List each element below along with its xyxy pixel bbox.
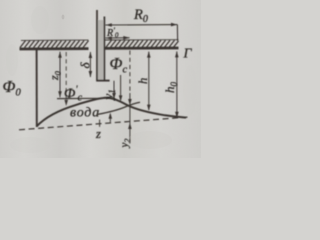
dimension h (147, 51, 151, 110)
scan noise blotches (6, 6, 197, 153)
svg-text:Г: Г (183, 47, 193, 62)
water level line inside zone (57, 97, 107, 99)
original water table (dashed datum) (19, 117, 188, 130)
dashed vertical at R'0 radius with y2 dimension (128, 51, 132, 144)
svg-text:z: z (95, 127, 101, 141)
dimension delta (89, 52, 93, 77)
depression curve (mound) (37, 98, 186, 126)
tube interior shading (98, 20, 104, 80)
secondary curve near axis (98, 102, 141, 114)
ground hatch right segment (105, 40, 179, 49)
tube right wall (103, 17, 105, 81)
dashed vertical at tube-left radius (65, 52, 67, 100)
paper background (0, 0, 201, 158)
svg-text:δ: δ (78, 62, 93, 69)
dimension h0 (175, 51, 179, 118)
svg-text:h: h (136, 78, 150, 84)
axis tick z (99, 120, 101, 127)
y2 small arrow near axis (109, 113, 113, 123)
right terminal vertical (176, 25, 178, 41)
left boundary wall (36, 49, 38, 128)
dimension z0 (58, 52, 62, 98)
dimension R'0 line (106, 36, 130, 40)
dimension R0 line (106, 23, 178, 41)
tube bottom (96, 80, 109, 82)
leader arrow from Phi_c to curve (119, 75, 123, 102)
svg-text:вода: вода (70, 106, 100, 121)
ground hatch left segment (20, 40, 89, 49)
y1 arrow (112, 81, 116, 99)
tube left wall (96, 10, 98, 81)
